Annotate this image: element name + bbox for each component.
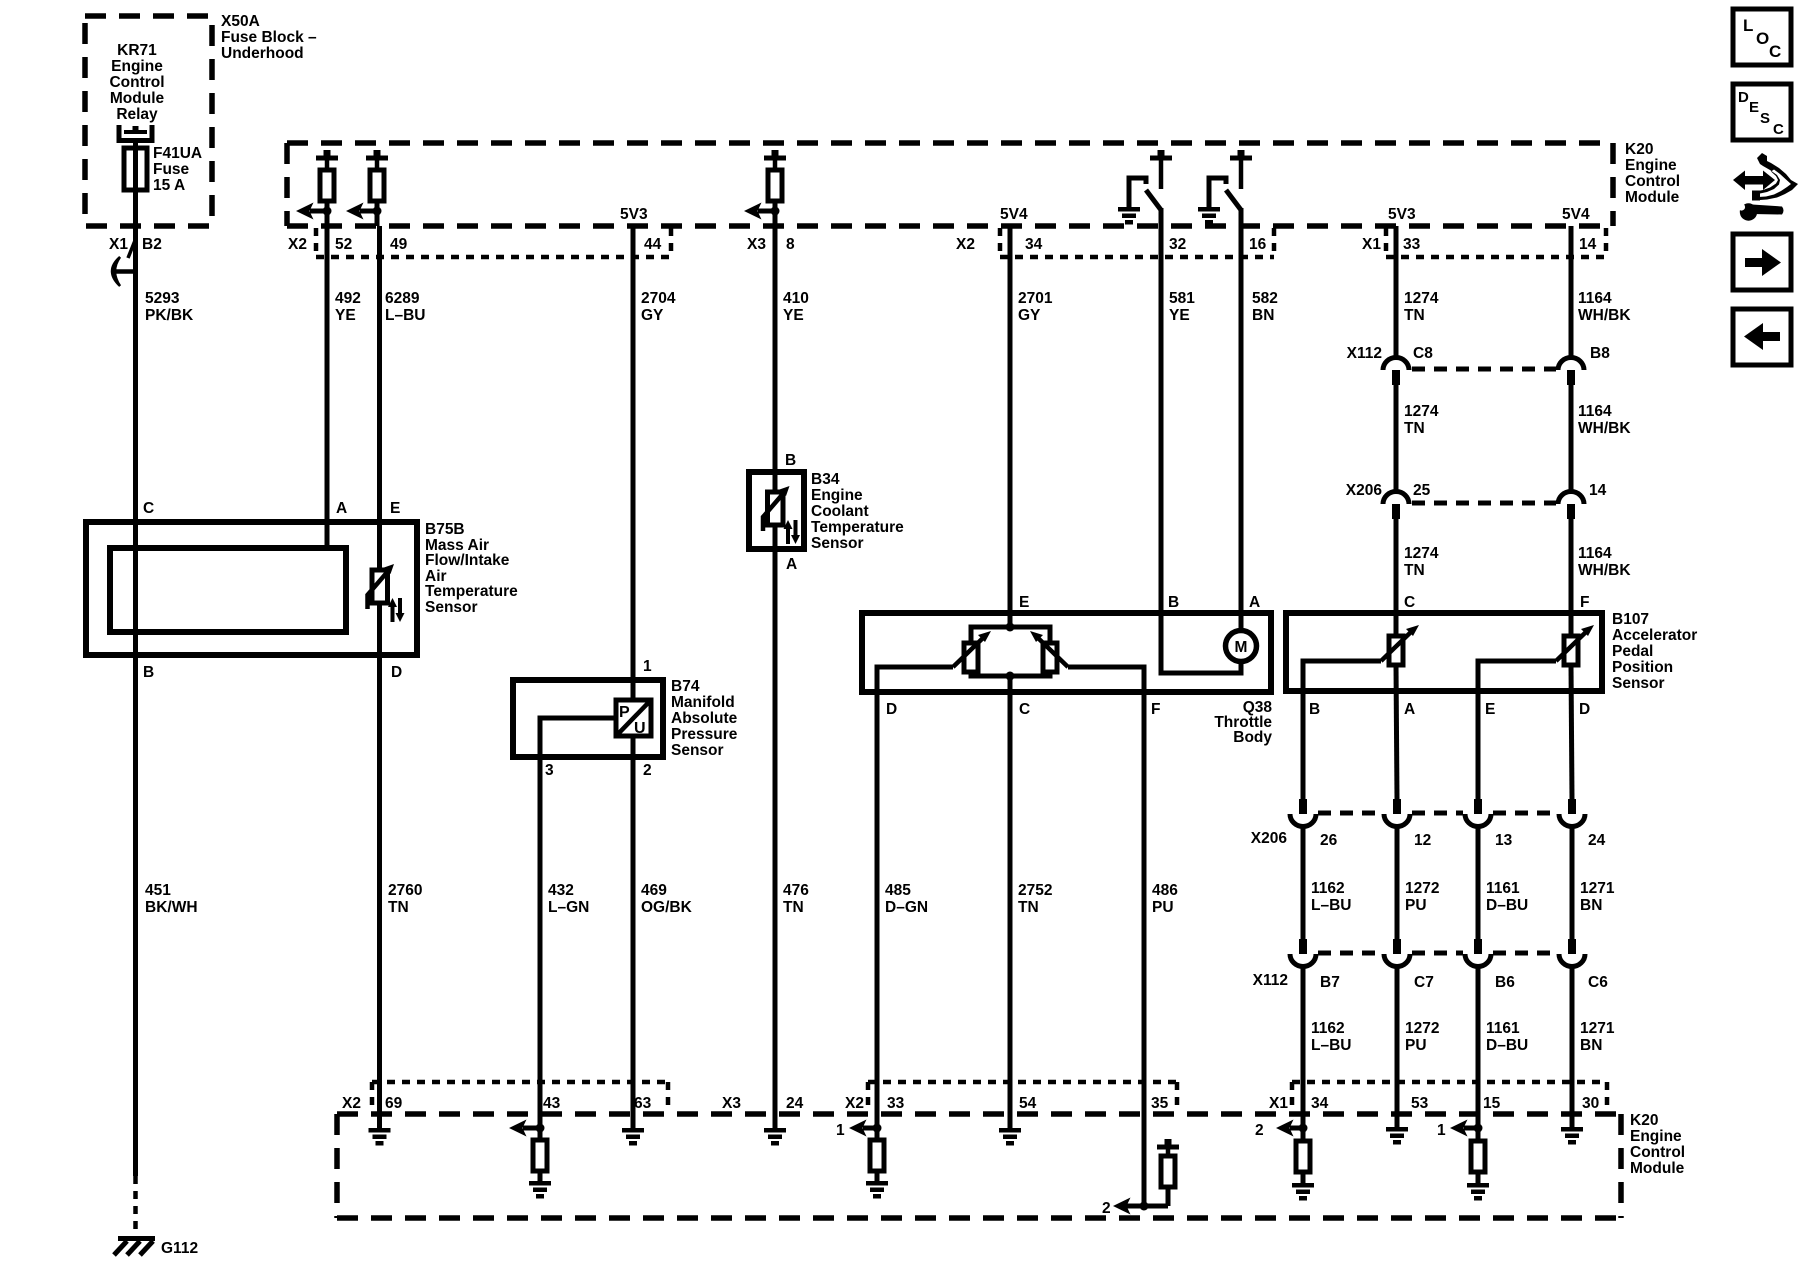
wire 582 BN <box>1239 208 1244 630</box>
ground pin 30 <box>1561 1127 1583 1145</box>
svg-text:BN: BN <box>1580 1037 1602 1054</box>
node pin 52 <box>323 207 332 216</box>
svg-text:2760: 2760 <box>388 882 422 899</box>
svg-text:2701: 2701 <box>1018 290 1053 307</box>
label 485 D-GN <box>885 882 928 916</box>
svg-text:2752: 2752 <box>1018 882 1052 899</box>
svg-text:Body: Body <box>1233 729 1272 746</box>
connector X206 14 <box>1558 492 1584 520</box>
svg-text:K20: K20 <box>1630 1112 1658 1129</box>
label 1272 PU lower <box>1405 1020 1439 1054</box>
label K20 Engine Control Module (top) <box>1625 141 1680 206</box>
svg-text:C: C <box>143 500 154 517</box>
svg-text:Position: Position <box>1612 659 1673 676</box>
switch pin 16 <box>1209 160 1241 210</box>
svg-text:Fuse: Fuse <box>153 161 190 178</box>
pin letters B A E D (B107 bottom) <box>1309 701 1590 718</box>
P/U transducer B74 <box>616 700 651 737</box>
resistor pin 43 <box>533 1140 547 1171</box>
svg-text:43: 43 <box>543 1095 561 1112</box>
ground switch 32 <box>1118 207 1140 225</box>
label 581 YE <box>1169 290 1195 324</box>
label KR71 Engine Control Module Relay <box>109 42 164 123</box>
svg-text:E: E <box>1485 701 1495 718</box>
svg-text:X2: X2 <box>845 1095 864 1112</box>
svg-text:B: B <box>1168 594 1179 611</box>
ground pin 63 <box>622 1128 644 1146</box>
svg-text:X206: X206 <box>1346 482 1383 499</box>
svg-text:PU: PU <box>1152 899 1174 916</box>
connector X112 C7 <box>1384 939 1410 967</box>
svg-text:B34: B34 <box>811 471 840 488</box>
svg-text:1: 1 <box>836 1122 845 1139</box>
connector strip X2 top-left <box>316 228 671 257</box>
arrows up-down B34 <box>784 520 801 544</box>
svg-text:B2: B2 <box>142 236 162 253</box>
svg-text:E: E <box>1749 99 1759 116</box>
svg-text:Control: Control <box>1625 173 1680 190</box>
label 1274 TN lower <box>1404 545 1439 579</box>
svg-text:Relay: Relay <box>116 106 158 123</box>
svg-text:U: U <box>634 720 646 737</box>
svg-text:33: 33 <box>1403 236 1421 253</box>
wire 581 YE <box>1159 208 1164 613</box>
svg-text:5293: 5293 <box>145 290 180 307</box>
arrow 1 pin 15 <box>1437 1120 1478 1140</box>
wire C into inner box <box>133 522 138 548</box>
arrow 2 pin 34 <box>1255 1120 1303 1140</box>
svg-text:B: B <box>785 452 796 469</box>
svg-text:X2: X2 <box>956 236 975 253</box>
svg-text:L–BU: L–BU <box>1311 1037 1351 1054</box>
wire 1164 WH/BK lower <box>1569 519 1574 613</box>
svg-text:451: 451 <box>145 882 171 899</box>
voltage tick pin 49 <box>366 150 388 161</box>
wire pin 30 stub <box>1570 1114 1575 1127</box>
svg-text:Absolute: Absolute <box>671 710 738 727</box>
wire pin 35 branch <box>1122 1114 1168 1206</box>
node pin 35 <box>1140 1202 1149 1211</box>
wire pin 34 stub <box>1301 1114 1306 1141</box>
label 1274 TN mid <box>1404 403 1439 437</box>
K20 top module dashed box <box>287 143 1613 226</box>
dashed wire to G112 <box>133 1176 138 1237</box>
svg-text:53: 53 <box>1411 1095 1429 1112</box>
icon DESC box <box>1733 84 1791 140</box>
sensor B107 box <box>1286 613 1602 691</box>
connector X112 B7 <box>1290 939 1316 967</box>
svg-text:Accelerator: Accelerator <box>1612 627 1697 644</box>
thermistor B75B <box>368 564 395 609</box>
svg-text:Engine: Engine <box>111 58 163 75</box>
svg-text:TN: TN <box>783 899 804 916</box>
ground pin 15 <box>1467 1172 1489 1201</box>
svg-text:PU: PU <box>1405 897 1427 914</box>
wire 5293 PK/BK <box>133 226 138 1176</box>
wire 1274 TN mid <box>1394 385 1399 492</box>
connector strip X2 bottom-left <box>372 1082 668 1112</box>
svg-text:Manifold: Manifold <box>671 694 735 711</box>
wire pin3 from P/U <box>540 718 616 1114</box>
svg-text:13: 13 <box>1495 832 1513 849</box>
wire D from thermistor <box>377 603 382 1114</box>
svg-text:Temperature: Temperature <box>425 583 518 600</box>
voltage tick pin 52 <box>316 150 338 161</box>
potentiometer B107 right <box>1556 625 1594 665</box>
connector X112 B8 <box>1558 358 1584 386</box>
svg-text:1274: 1274 <box>1404 403 1439 420</box>
svg-text:1271: 1271 <box>1580 1020 1615 1037</box>
svg-text:34: 34 <box>1311 1095 1329 1112</box>
ground G112 chassis <box>114 1236 155 1255</box>
connector X112 B6 <box>1465 939 1491 967</box>
pin labels X1 34 53 15 30 <box>1269 1095 1599 1112</box>
svg-text:582: 582 <box>1252 290 1278 307</box>
wire C through pot to A <box>1396 613 1397 1114</box>
svg-text:2704: 2704 <box>641 290 676 307</box>
pin labels X2 52 49 44 <box>288 236 662 253</box>
label 1164 WH/BK lower <box>1578 545 1631 579</box>
node pin 8 <box>771 207 780 216</box>
svg-text:L: L <box>1743 16 1753 35</box>
wire pin 15 stub <box>1476 1114 1481 1141</box>
svg-text:GY: GY <box>641 307 664 324</box>
svg-text:1274: 1274 <box>1404 545 1439 562</box>
label 5V4 (left) <box>1000 206 1028 223</box>
label 486 PU <box>1152 882 1178 916</box>
svg-text:2: 2 <box>1102 1200 1111 1217</box>
sensor B74 box <box>513 680 663 757</box>
label 1274 TN upper <box>1404 290 1439 324</box>
svg-text:X112: X112 <box>1253 972 1288 989</box>
svg-text:6289: 6289 <box>385 290 420 307</box>
svg-text:E: E <box>390 500 400 517</box>
wire 1164 WH/BK upper <box>1569 226 1574 358</box>
svg-text:52: 52 <box>335 236 352 253</box>
pin letters C A E (B75B top) <box>143 500 400 517</box>
svg-text:485: 485 <box>885 882 911 899</box>
svg-text:1271: 1271 <box>1580 880 1615 897</box>
svg-text:M: M <box>1235 639 1248 656</box>
svg-text:WH/BK: WH/BK <box>1578 562 1631 579</box>
svg-text:8: 8 <box>786 236 795 253</box>
pin label X1 B2 <box>109 236 162 258</box>
label 2752 TN <box>1018 882 1052 916</box>
svg-text:X3: X3 <box>722 1095 741 1112</box>
ground pin 53 <box>1386 1127 1408 1145</box>
svg-text:L–GN: L–GN <box>548 899 589 916</box>
label 432 L-GN <box>548 882 589 916</box>
svg-text:26: 26 <box>1320 832 1338 849</box>
svg-text:410: 410 <box>783 290 809 307</box>
pin labels X3 24 <box>722 1095 804 1112</box>
pin labels X2 34 32 16 <box>956 236 1267 253</box>
voltage tick switch 16 <box>1230 150 1252 161</box>
arrow 1 pin 33 <box>836 1120 877 1140</box>
labels X206 26 12 13 24 <box>1251 830 1606 849</box>
tie line X112 row1 <box>1412 367 1556 372</box>
svg-text:Sensor: Sensor <box>1612 675 1665 692</box>
svg-text:63: 63 <box>634 1095 652 1112</box>
resistor pin 35 <box>1161 1149 1175 1206</box>
wire A to motor <box>1239 613 1244 632</box>
wire 492 YE <box>325 201 330 548</box>
ground pin 34 <box>1292 1172 1314 1201</box>
potentiometer Q38 right <box>1030 631 1068 672</box>
wiper wire to F <box>1068 667 1144 1206</box>
svg-text:Temperature: Temperature <box>811 519 904 536</box>
svg-text:581: 581 <box>1169 290 1195 307</box>
svg-text:P: P <box>619 704 630 721</box>
label 1162 L-BU upper <box>1311 880 1351 914</box>
sensor B75B outer box <box>86 522 417 655</box>
svg-text:44: 44 <box>644 236 662 253</box>
connector X112 C6 <box>1559 939 1585 967</box>
label 1164 WH/BK upper <box>1578 290 1631 324</box>
svg-text:C: C <box>1019 701 1030 718</box>
label 1161 D-BU upper <box>1486 880 1528 914</box>
label F41UA Fuse 15 A <box>153 145 202 194</box>
svg-text:X1: X1 <box>109 236 128 253</box>
wire pin2 469 OG/BK <box>631 736 636 1114</box>
svg-text:X2: X2 <box>342 1095 361 1112</box>
svg-text:30: 30 <box>1582 1095 1599 1112</box>
svg-text:GY: GY <box>1018 307 1041 324</box>
svg-text:C8: C8 <box>1413 345 1433 362</box>
svg-text:TN: TN <box>1404 562 1425 579</box>
svg-text:Pedal: Pedal <box>1612 643 1653 660</box>
wire F through pot to D <box>1571 613 1572 1114</box>
svg-text:X112: X112 <box>1347 345 1382 362</box>
svg-text:C6: C6 <box>1588 974 1608 991</box>
wire relay to fuse <box>133 140 138 226</box>
svg-text:BN: BN <box>1252 307 1274 324</box>
sensor B75B inner box <box>110 548 346 632</box>
icon LOC box <box>1733 9 1791 65</box>
svg-text:KR71: KR71 <box>117 42 157 59</box>
label 5V3 (right) <box>1388 206 1416 223</box>
voltage tick pin 35 resistor <box>1157 1139 1179 1150</box>
svg-text:Fuse Block –: Fuse Block – <box>221 29 317 46</box>
thermistor B34 <box>763 486 790 531</box>
wire pin 24 stub <box>773 1114 778 1128</box>
label 1161 D-BU lower <box>1486 1020 1528 1054</box>
svg-text:1: 1 <box>643 658 652 675</box>
resistor pin 15 <box>1471 1141 1485 1172</box>
svg-text:486: 486 <box>1152 882 1178 899</box>
resistor pin 52 <box>320 160 334 201</box>
label B74 Manifold Absolute Pressure Sensor <box>671 678 738 759</box>
svg-text:B107: B107 <box>1612 611 1649 628</box>
svg-text:49: 49 <box>390 236 408 253</box>
wire 2752 TN <box>1008 676 1013 1114</box>
svg-text:Sensor: Sensor <box>671 742 724 759</box>
icon back arrow box <box>1733 309 1791 365</box>
resistor pin 33 <box>870 1140 884 1171</box>
arrow 2 pin 35 <box>1102 1198 1131 1218</box>
svg-text:5V4: 5V4 <box>1562 206 1590 223</box>
label X50A Fuse Block - Underhood <box>221 13 317 62</box>
svg-text:Engine: Engine <box>1630 1128 1682 1145</box>
wiper wire to D <box>877 667 953 1114</box>
wire 1274 TN upper <box>1394 226 1399 358</box>
svg-text:1272: 1272 <box>1405 880 1439 897</box>
svg-text:YE: YE <box>1169 307 1190 324</box>
svg-text:1162: 1162 <box>1311 880 1345 897</box>
wire B inside Q38 <box>1161 613 1241 673</box>
svg-text:2: 2 <box>643 762 652 779</box>
arrow pin 49 <box>346 203 377 220</box>
ground pin 54 <box>999 1128 1021 1146</box>
svg-text:BK/WH: BK/WH <box>145 899 198 916</box>
svg-text:F: F <box>1580 594 1589 611</box>
labels X112 B7 C7 B6 C6 <box>1253 972 1609 991</box>
resistor pin 49 <box>370 160 384 201</box>
svg-text:14: 14 <box>1589 482 1607 499</box>
svg-text:C7: C7 <box>1414 974 1434 991</box>
svg-text:15 A: 15 A <box>153 177 185 194</box>
svg-text:15: 15 <box>1483 1095 1501 1112</box>
svg-text:Sensor: Sensor <box>425 599 478 616</box>
connector strip X1 bottom-right <box>1292 1082 1607 1112</box>
svg-text:1164: 1164 <box>1578 545 1612 562</box>
svg-text:54: 54 <box>1019 1095 1037 1112</box>
tie line X206 row3 <box>1318 811 1557 816</box>
label 2760 TN <box>388 882 422 916</box>
svg-text:24: 24 <box>1588 832 1606 849</box>
ground pin 33 <box>866 1171 888 1199</box>
svg-text:5V3: 5V3 <box>1388 206 1416 223</box>
label 492 YE <box>335 290 361 324</box>
svg-text:YE: YE <box>783 307 804 324</box>
svg-text:5V3: 5V3 <box>620 206 648 223</box>
wire pin 53 stub <box>1395 1114 1400 1127</box>
svg-text:YE: YE <box>335 307 356 324</box>
svg-text:Module: Module <box>1630 1160 1685 1177</box>
wire 2704 GY <box>631 226 636 700</box>
svg-text:A: A <box>336 500 347 517</box>
sensor B34 box <box>749 472 804 549</box>
label G112 <box>161 1240 198 1257</box>
svg-text:C: C <box>1769 42 1781 61</box>
svg-text:L–BU: L–BU <box>1311 897 1351 914</box>
pin number 1 (B74) <box>643 658 652 675</box>
pin labels X1 33 14 <box>1362 236 1597 253</box>
label 1164 WH/BK mid <box>1578 403 1631 437</box>
label K20 Engine Control Module (bottom) <box>1630 1112 1685 1177</box>
svg-text:PK/BK: PK/BK <box>145 307 194 324</box>
label 410 YE <box>783 290 809 324</box>
svg-text:16: 16 <box>1249 236 1267 253</box>
label 476 TN <box>783 882 809 916</box>
connector X112 C8 <box>1383 358 1409 386</box>
svg-text:D: D <box>1738 89 1749 106</box>
connector X206 26 <box>1290 799 1316 827</box>
arrows up-down B75B <box>388 598 405 622</box>
svg-text:Underhood: Underhood <box>221 45 304 62</box>
svg-text:F: F <box>1151 701 1160 718</box>
svg-text:X2: X2 <box>288 236 307 253</box>
svg-text:34: 34 <box>1025 236 1043 253</box>
svg-text:469: 469 <box>641 882 667 899</box>
label 451 BK/WH <box>145 882 198 916</box>
node C <box>1006 672 1015 681</box>
wire 1274 TN lower <box>1394 519 1399 613</box>
svg-text:Engine: Engine <box>1625 157 1677 174</box>
pin labels X3 8 <box>747 236 795 253</box>
pin letters B D (B75B bottom) <box>143 664 402 681</box>
connector X206 13 <box>1465 799 1491 827</box>
offpage arrow at B2 <box>112 257 135 286</box>
wire pin 63 stub <box>631 1114 636 1128</box>
svg-text:Module: Module <box>110 90 165 107</box>
svg-text:G112: G112 <box>161 1240 198 1257</box>
arrow pin 8 <box>744 203 775 220</box>
ground pin 24 <box>764 1128 786 1146</box>
svg-text:B7: B7 <box>1320 974 1340 991</box>
svg-text:3: 3 <box>545 762 554 779</box>
svg-text:F41UA: F41UA <box>153 145 202 162</box>
label 1162 L-BU lower <box>1311 1020 1351 1054</box>
svg-text:B6: B6 <box>1495 974 1515 991</box>
svg-text:B: B <box>143 664 154 681</box>
svg-text:A: A <box>786 556 797 573</box>
K20 bottom module dashed box <box>337 1114 1621 1218</box>
label 1271 BN upper <box>1580 880 1615 914</box>
svg-text:TN: TN <box>388 899 409 916</box>
wire A into inner box <box>325 522 330 548</box>
svg-text:B75B: B75B <box>425 521 465 538</box>
connector strip X2 bottom-middle <box>868 1082 1177 1112</box>
tie line X206 row2 <box>1412 501 1556 506</box>
wire pin 43 stub <box>538 1114 543 1140</box>
svg-text:S: S <box>1760 110 1770 127</box>
svg-text:Coolant: Coolant <box>811 503 869 520</box>
resistor pin 8 <box>768 160 782 201</box>
label 2701 GY <box>1018 290 1053 324</box>
wire 2701 GY <box>1008 226 1013 627</box>
voltage tick pin 8 <box>764 150 786 161</box>
arrow pin 43 <box>509 1120 540 1137</box>
svg-text:X1: X1 <box>1362 236 1381 253</box>
ground pin 69 <box>369 1128 391 1146</box>
connector X206 24 <box>1559 799 1585 827</box>
connector X206 25 <box>1383 492 1409 520</box>
potentiometer Q38 left <box>953 631 991 672</box>
node pin 33 <box>873 1124 882 1133</box>
svg-text:69: 69 <box>385 1095 403 1112</box>
wire 410 YE <box>773 201 778 472</box>
label 1272 PU upper <box>1405 880 1439 914</box>
pin letter A (B34 bottom) <box>786 556 797 573</box>
svg-text:1274: 1274 <box>1404 290 1439 307</box>
switch pin 32 <box>1129 160 1161 210</box>
svg-text:WH/BK: WH/BK <box>1578 420 1631 437</box>
svg-text:L–BU: L–BU <box>385 307 425 324</box>
svg-text:35: 35 <box>1151 1095 1169 1112</box>
svg-text:E: E <box>1019 594 1029 611</box>
svg-text:Control: Control <box>1630 1144 1685 1161</box>
ground switch 16 <box>1198 207 1220 225</box>
svg-text:Sensor: Sensor <box>811 535 864 552</box>
svg-text:PU: PU <box>1405 1037 1427 1054</box>
svg-text:Control: Control <box>109 74 164 91</box>
pin labels X2 33 54 35 <box>845 1095 1169 1112</box>
svg-text:WH/BK: WH/BK <box>1578 307 1631 324</box>
wire pin 33 stub <box>875 1114 880 1140</box>
wire B into B34 <box>773 472 778 492</box>
wire 6289 L-BU <box>377 201 380 570</box>
